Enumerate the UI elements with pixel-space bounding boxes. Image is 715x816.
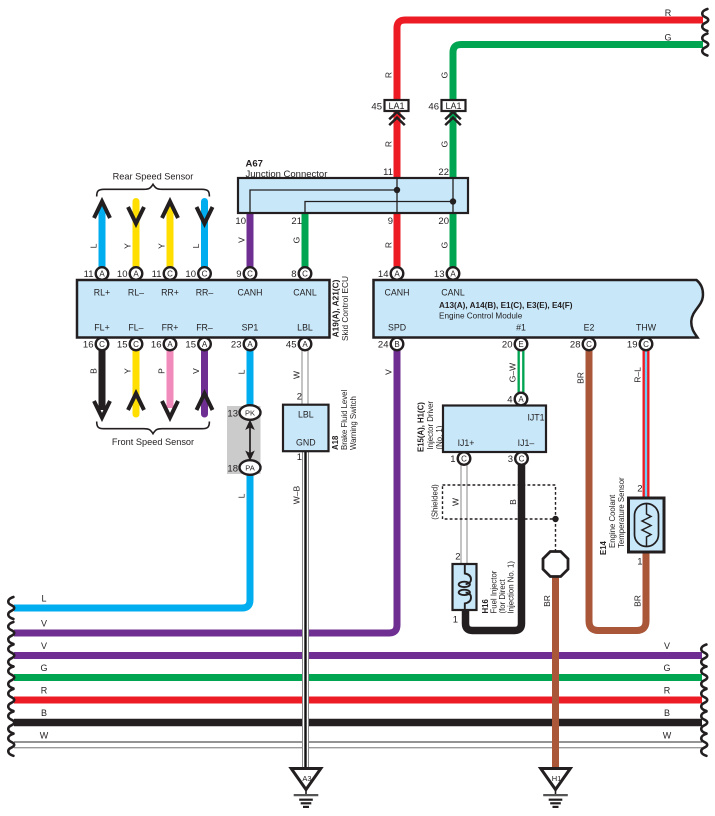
shield dashed drain wire (555, 519, 557, 553)
wire L from PA connector to bus (14, 474, 250, 608)
svg-text:R: R (384, 141, 394, 147)
svg-text:C: C (586, 340, 592, 349)
ECU bottom pin 15(C) (130, 338, 143, 351)
svg-text:A13(A), A14(B), E1(C), E3(E),: A13(A), A14(B), E1(C), E3(E), E4(F) (439, 301, 573, 310)
svg-text:G: G (292, 237, 302, 244)
ECM bottom pin 19(C) (640, 338, 653, 351)
svg-text:(No. 1): (No. 1) (435, 425, 444, 449)
continuation mark B left (8, 712, 14, 734)
ECU bottom pin 15(A) (198, 338, 211, 351)
ECU bottom pin 23(A) (244, 338, 257, 351)
wire BR from shield octagon to ground H1 (552, 576, 559, 769)
svg-text:C: C (247, 270, 253, 279)
ECU bottom pin 16(A) (164, 338, 177, 351)
wire Y front FL- (133, 350, 140, 414)
svg-text:10: 10 (235, 216, 246, 227)
svg-text:A18: A18 (331, 435, 340, 450)
svg-text:11: 11 (84, 269, 94, 280)
svg-text:P: P (157, 368, 167, 374)
svg-text:20: 20 (438, 216, 449, 227)
svg-text:W: W (40, 731, 49, 741)
svg-text:V: V (41, 641, 47, 651)
junction connector internal wire pin22-20 (452, 178, 454, 213)
svg-text:A19(A), A21(C): A19(A), A21(C) (331, 279, 341, 337)
svg-text:45: 45 (371, 102, 382, 113)
wire Y rear RL- (133, 202, 140, 268)
sensor E14 box (629, 498, 665, 552)
svg-text:L: L (237, 369, 247, 374)
IJT1 bottom pin 1(C) (458, 452, 471, 465)
svg-text:10: 10 (117, 269, 128, 280)
wire R-L from THW to E14 pin2 (643, 350, 650, 498)
wire G below junction connector (450, 213, 457, 268)
wire B front FL+ (99, 350, 106, 410)
bus wire B (14, 719, 702, 727)
continuation mark G top right (702, 34, 708, 56)
ECU top pin 11(A) (96, 267, 109, 280)
svg-text:W: W (663, 731, 672, 741)
svg-text:FR–: FR– (196, 323, 213, 333)
arrow up front FR- (197, 394, 213, 411)
svg-text:V: V (237, 237, 247, 243)
svg-text:4: 4 (507, 395, 512, 406)
svg-text:C: C (202, 270, 208, 279)
svg-text:23: 23 (231, 340, 242, 351)
svg-text:A: A (394, 270, 400, 279)
ECU top pin 10(A) (130, 267, 143, 280)
svg-text:RL+: RL+ (94, 288, 110, 298)
svg-text:C: C (99, 340, 105, 349)
svg-text:11: 11 (152, 269, 162, 280)
injector coil symbol (465, 565, 471, 584)
svg-text:G: G (664, 33, 671, 43)
connector 46 LA1 (442, 100, 466, 111)
svg-text:Engine Control Module: Engine Control Module (439, 312, 523, 321)
svg-text:C: C (133, 340, 139, 349)
svg-text:Y: Y (123, 368, 133, 374)
svg-text:G: G (440, 72, 450, 79)
svg-text:BR: BR (542, 595, 552, 607)
svg-text:Y: Y (157, 243, 167, 249)
svg-text:A: A (99, 270, 105, 279)
svg-text:Injection No. 1): Injection No. 1) (507, 561, 516, 614)
svg-text:Y: Y (123, 243, 133, 249)
ground H1 (541, 769, 571, 790)
svg-text:PA: PA (245, 464, 254, 473)
svg-text:A: A (133, 270, 139, 279)
connector 13 PK (240, 405, 261, 420)
arrow up front FL- (128, 394, 144, 411)
svg-text:R–L: R–L (633, 367, 643, 383)
svg-text:13: 13 (227, 409, 238, 420)
svg-text:3: 3 (508, 454, 513, 465)
continuation mark W right (701, 734, 707, 756)
svg-text:L: L (237, 493, 247, 498)
svg-text:B: B (394, 340, 399, 349)
svg-text:V: V (384, 369, 394, 375)
junction connector internal wire pin21 (305, 202, 453, 214)
ECM A13/A14 box (374, 280, 703, 338)
junction node on G line (450, 198, 456, 204)
ECM bottom pin 28(C) (583, 338, 596, 351)
svg-text:28: 28 (570, 340, 581, 351)
svg-text:21: 21 (291, 216, 302, 227)
arrow up rear RL+ (94, 202, 110, 219)
svg-text:Warning Switch: Warning Switch (349, 396, 358, 450)
svg-text:A: A (302, 340, 308, 349)
svg-text:9: 9 (388, 216, 393, 227)
svg-text:IJ1+: IJ1+ (458, 438, 475, 448)
junction node on R line (394, 187, 400, 193)
svg-text:#1: #1 (516, 323, 526, 333)
svg-text:14: 14 (378, 269, 389, 280)
continuation mark B right (701, 712, 707, 734)
svg-text:A: A (518, 395, 524, 404)
ECU top pin 8(C) (299, 267, 312, 280)
continuation mark V2 right (701, 645, 707, 667)
continuation mark L left (8, 597, 14, 619)
svg-text:L: L (89, 243, 99, 248)
svg-text:FR+: FR+ (162, 323, 179, 333)
svg-text:L: L (191, 243, 201, 248)
svg-text:8: 8 (291, 269, 296, 280)
svg-text:RR+: RR+ (161, 288, 179, 298)
wire L rear RL+ (99, 204, 106, 268)
svg-text:C: C (643, 340, 649, 349)
svg-text:A: A (202, 340, 208, 349)
svg-text:19: 19 (627, 340, 638, 351)
ECM top pin 14(A) (391, 267, 404, 280)
ECU bottom pin 45(A) (299, 338, 312, 351)
svg-text:1: 1 (297, 452, 302, 463)
svg-text:A: A (167, 340, 173, 349)
svg-text:Temperature Sensor: Temperature Sensor (617, 477, 626, 548)
svg-text:SP1: SP1 (242, 323, 259, 333)
front speed sensor brace (97, 422, 210, 434)
continuation mark G right (701, 667, 707, 689)
svg-text:G: G (663, 663, 670, 673)
ECM bottom pin 24(B) (391, 338, 404, 351)
svg-text:V: V (191, 368, 201, 374)
svg-text:E2: E2 (584, 323, 595, 333)
svg-text:CANH: CANH (385, 288, 410, 298)
svg-text:18: 18 (227, 464, 238, 475)
svg-text:LA1: LA1 (445, 101, 461, 111)
connector 45 LA1 (385, 100, 409, 111)
svg-text:L: L (41, 594, 46, 604)
svg-text:16: 16 (83, 340, 94, 351)
bus wire G (14, 674, 702, 681)
svg-text:45: 45 (286, 340, 297, 351)
bus wire R (14, 697, 702, 704)
wire W from IJT1 pin1 to injector (461, 465, 468, 565)
arrow down rear RL- (128, 207, 144, 224)
svg-text:15: 15 (117, 340, 128, 351)
arrow down rear RR- (197, 207, 213, 224)
svg-text:C: C (302, 270, 308, 279)
svg-text:20: 20 (502, 340, 513, 351)
wire W from LBL pin to switch (302, 350, 309, 404)
wire R (battery feed, top right) (397, 20, 703, 179)
svg-text:Rear Speed Sensor: Rear Speed Sensor (113, 172, 194, 182)
shield dashed box (443, 485, 556, 519)
svg-text:RL–: RL– (128, 288, 144, 298)
wire L rear RR- (201, 202, 208, 268)
svg-text:RR–: RR– (196, 288, 214, 298)
ECU top pin 9(C) (244, 267, 257, 280)
wire BR crossing buses (552, 640, 559, 769)
svg-text:1: 1 (637, 557, 642, 568)
svg-text:B: B (664, 708, 670, 718)
svg-text:B: B (508, 499, 518, 505)
ECU A19/A21 box (77, 280, 330, 338)
continuation mark W left (8, 734, 14, 756)
ECU bottom pin 16(C) (96, 338, 109, 351)
shield node (552, 516, 558, 522)
sensor thermistor symbol (635, 504, 659, 547)
svg-text:CANL: CANL (293, 288, 317, 298)
wire L from SP1 to PK connector (247, 350, 254, 406)
wire V junction pin10 to CANH (247, 213, 254, 268)
svg-text:LBL: LBL (298, 410, 314, 420)
ECU top pin 11(C) (164, 267, 177, 280)
svg-text:GND: GND (296, 438, 316, 448)
svg-text:2: 2 (637, 484, 642, 495)
svg-text:Injector Driver: Injector Driver (426, 401, 435, 450)
svg-text:16: 16 (151, 340, 162, 351)
svg-text:G: G (40, 663, 47, 673)
wire G-W from #1 to IJT1 (518, 350, 525, 393)
svg-text:G: G (440, 242, 450, 249)
svg-text:46: 46 (428, 102, 439, 113)
double arrow between PK and PA (249, 427, 251, 453)
svg-text:R: R (384, 242, 394, 248)
svg-text:11: 11 (383, 167, 393, 178)
svg-text:2: 2 (455, 552, 460, 563)
svg-text:R: R (665, 8, 672, 18)
svg-text:CANL: CANL (441, 288, 465, 298)
svg-text:IJT1: IJT1 (527, 413, 544, 423)
continuation mark R right (701, 689, 707, 711)
arrow down front FR+ (162, 401, 178, 418)
svg-text:PK: PK (245, 409, 255, 418)
shield ground octagon (543, 552, 568, 577)
svg-text:W–B: W–B (292, 485, 302, 504)
svg-text:2: 2 (297, 392, 302, 403)
continuation mark R left (8, 689, 14, 711)
svg-text:BR: BR (633, 595, 643, 607)
connector 18 PA (240, 460, 261, 475)
bus wire W (14, 741, 702, 743)
wire G junction pin21 to CANL (302, 213, 309, 268)
svg-text:Skid Control ECU: Skid Control ECU (340, 276, 350, 341)
svg-text:(Shielded): (Shielded) (431, 484, 440, 520)
ECM top pin 13(A) (447, 267, 460, 280)
svg-text:E: E (518, 340, 523, 349)
connector block PK/PA gray box (227, 406, 261, 474)
svg-text:13: 13 (434, 269, 445, 280)
arrow up rear RR+ (162, 202, 178, 219)
svg-text:C: C (519, 455, 525, 464)
svg-text:BR: BR (576, 372, 586, 384)
wire BR from E2 to E14 pin1 (589, 350, 646, 630)
ground A3 (291, 769, 321, 790)
arrow down front FL+ (94, 401, 110, 418)
svg-text:CANH: CANH (238, 288, 263, 298)
wire Y rear RR+ (167, 204, 174, 268)
svg-text:V: V (664, 641, 670, 651)
junction connector internal wire pin11-9 (396, 178, 398, 213)
svg-text:C: C (461, 455, 467, 464)
svg-text:R: R (664, 686, 671, 696)
svg-text:Engine Coolant: Engine Coolant (608, 494, 617, 548)
svg-text:E14: E14 (599, 540, 608, 555)
IJT1 top pin 4(A) (515, 393, 528, 406)
svg-text:IJ1–: IJ1– (518, 438, 535, 448)
svg-text:H1: H1 (552, 774, 562, 783)
svg-text:W: W (451, 498, 461, 506)
junction connector A67 box (238, 178, 468, 213)
svg-text:C: C (167, 270, 173, 279)
wire W-B crossing buses (302, 620, 309, 769)
wire V from SPD to bus (14, 350, 397, 633)
wire R below junction connector (394, 213, 401, 268)
svg-text:24: 24 (378, 340, 389, 351)
wire B from IJT1 pin3 to injector (466, 465, 522, 631)
wire P front FR+ (167, 350, 174, 408)
switch A18 box (283, 405, 329, 452)
svg-text:G: G (440, 141, 450, 148)
svg-text:E15(A), H1(C): E15(A), H1(C) (417, 402, 426, 452)
continuation mark V1 left (8, 622, 14, 644)
svg-text:1: 1 (453, 615, 458, 626)
svg-text:Brake Fluid Level: Brake Fluid Level (340, 389, 349, 450)
svg-text:THW: THW (636, 323, 657, 333)
svg-text:FL–: FL– (128, 323, 143, 333)
wire G (top right) (453, 45, 703, 179)
svg-text:FL+: FL+ (94, 323, 109, 333)
junction connector internal wire pin10 (250, 190, 397, 213)
svg-text:A3: A3 (302, 774, 311, 783)
svg-text:10: 10 (185, 269, 196, 280)
svg-text:SPD: SPD (388, 323, 406, 333)
svg-text:A67: A67 (246, 159, 263, 170)
svg-text:B: B (89, 368, 99, 374)
bus wire V (14, 652, 702, 659)
svg-text:15: 15 (185, 340, 196, 351)
fuel injector H16 box (453, 564, 477, 610)
ECU top pin 10(C) (198, 267, 211, 280)
svg-text:9: 9 (236, 269, 241, 280)
continuation mark G left (8, 667, 14, 689)
svg-text:R: R (384, 72, 394, 78)
wire W-B from switch to ground A3 (302, 451, 309, 769)
svg-text:R: R (41, 686, 48, 696)
continuation mark V2 left (8, 645, 14, 667)
svg-text:Junction Connector: Junction Connector (246, 169, 328, 180)
ECM bottom pin 20(E) (515, 338, 528, 351)
injector driver E15/H1 box (443, 406, 546, 453)
svg-text:1: 1 (450, 454, 455, 465)
rear speed sensor brace (97, 184, 210, 196)
svg-text:A: A (247, 340, 253, 349)
svg-text:LBL: LBL (297, 323, 313, 333)
svg-text:G–W: G–W (508, 363, 518, 382)
continuation mark R top right (702, 9, 708, 31)
svg-text:V: V (41, 619, 47, 629)
svg-text:LA1: LA1 (388, 101, 404, 111)
svg-text:B: B (41, 708, 47, 718)
svg-text:A: A (450, 270, 456, 279)
svg-text:Front Speed Sensor: Front Speed Sensor (112, 437, 194, 447)
svg-text:22: 22 (438, 167, 449, 178)
IJT1 bottom pin 3(C) (515, 452, 528, 465)
wire V front FR- (201, 350, 208, 414)
svg-text:W: W (292, 371, 302, 379)
